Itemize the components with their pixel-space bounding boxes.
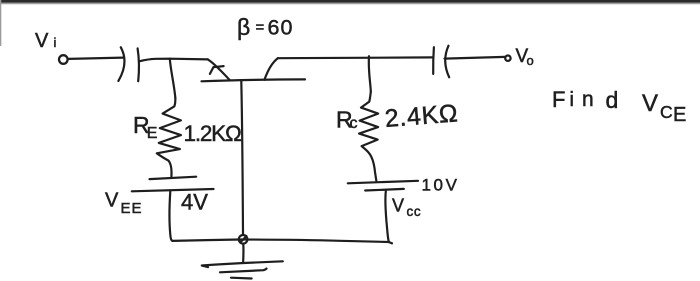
capacitor C1 xyxy=(118,47,124,81)
svg-text:β: β xyxy=(237,14,250,40)
capacitor C2 xyxy=(432,47,435,74)
transistor Q1 collector xyxy=(264,58,277,80)
node Vo terminal xyxy=(505,56,510,61)
ground bar 1 xyxy=(202,261,283,267)
junction node circle xyxy=(239,235,248,244)
svg-text:c: c xyxy=(350,115,358,132)
svg-text:i: i xyxy=(570,89,574,111)
svg-text:V: V xyxy=(105,190,119,212)
top scan border xyxy=(0,0,700,3)
junction node slash xyxy=(240,236,246,242)
svg-text:1.2KΩ: 1.2KΩ xyxy=(184,121,241,146)
resistor RC xyxy=(359,92,378,181)
wire RC branch down xyxy=(369,56,371,91)
svg-text:EE: EE xyxy=(121,200,143,217)
wire base down to node xyxy=(241,81,243,235)
transistor Q1 emitter xyxy=(208,59,230,80)
svg-text:F: F xyxy=(552,87,565,112)
left scan edge xyxy=(0,0,1,46)
wire emitter branch down xyxy=(170,59,176,98)
svg-text:V: V xyxy=(392,195,404,215)
resistor RE xyxy=(157,98,181,177)
ground bar 2 xyxy=(220,269,267,273)
battery VEE bottom plate xyxy=(132,189,214,191)
svg-text:6: 6 xyxy=(268,15,280,39)
transistor Q1 base bar xyxy=(202,79,306,81)
wire collector to C2 xyxy=(278,56,433,59)
svg-text:4V: 4V xyxy=(181,190,208,215)
svg-text:10V: 10V xyxy=(422,175,460,194)
wire C2 to Vo xyxy=(445,57,506,59)
wire VCC branch down xyxy=(385,191,392,243)
wire VEE to bottom rail xyxy=(170,191,173,241)
ground stem xyxy=(242,244,245,263)
svg-text:V: V xyxy=(642,90,658,117)
wire bottom rail xyxy=(172,240,388,243)
svg-text:C: C xyxy=(660,102,673,122)
svg-text:E: E xyxy=(147,125,158,142)
svg-text:=: = xyxy=(256,19,265,36)
ground bar 3 xyxy=(231,277,252,280)
battery VCC top plate xyxy=(348,181,418,184)
battery VEE top plate xyxy=(150,177,197,179)
transistor Q1 emitter arrow xyxy=(210,66,224,74)
svg-text:V: V xyxy=(35,30,49,52)
svg-text:0: 0 xyxy=(281,15,293,39)
wire input to C1 xyxy=(69,58,124,59)
wire C1 to emitter xyxy=(140,59,208,62)
svg-text:i: i xyxy=(54,35,57,50)
svg-text:n: n xyxy=(582,88,594,111)
svg-text:2.4KΩ: 2.4KΩ xyxy=(384,99,460,133)
svg-text:o: o xyxy=(527,53,534,68)
node Vi terminal xyxy=(59,55,68,64)
svg-text:d: d xyxy=(606,87,619,113)
battery VCC bottom plate xyxy=(365,189,404,191)
svg-text:E: E xyxy=(673,104,686,126)
svg-text:cc: cc xyxy=(407,204,422,219)
